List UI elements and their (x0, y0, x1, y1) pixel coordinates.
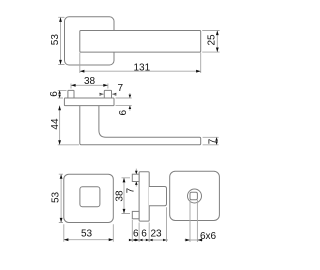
dim 53 (vertical) arrows (60, 174, 63, 222)
rosette front outline (64, 174, 114, 222)
chain dim 6/6/23 extension lines (132, 207, 166, 242)
dim 6 (left, boss height) extension ticks (58, 90, 67, 98)
right screw boss (side view) (104, 90, 111, 98)
chain dim line (131, 239, 169, 241)
dim 53 (bottom-left view, left) extension ticks (59, 174, 63, 222)
dim 25 (top view, right) extension lines (202, 31, 219, 53)
dim 38 (boss spacing) arrows (123, 178, 126, 214)
square spindle hole 6x6 (190, 192, 197, 200)
svg-text:23: 23 (151, 229, 163, 240)
dim 25 (top view) arrows (216, 31, 219, 53)
dim 53 (top view, left) dimension line (60, 17, 62, 64)
svg-text:53: 53 (51, 191, 62, 203)
dim 38 (boss spacing) dimension line (123, 178, 125, 214)
svg-text:44: 44 (50, 118, 61, 130)
svg-text:6: 6 (49, 91, 60, 97)
svg-text:7: 7 (126, 187, 137, 193)
svg-text:38: 38 (115, 190, 126, 202)
dim 7 (right boss) leader lines (100, 93, 117, 95)
svg-text:38: 38 (84, 76, 96, 87)
handle base square (front) (80, 187, 100, 207)
chain dim arrow marks (129, 239, 167, 241)
dim 38 (middle view) dimension line (71, 84, 108, 86)
dim 38 (middle view, top) extension ticks (71, 84, 108, 89)
dim 44 arrows (58, 106, 61, 145)
dim 25 (top view) dimension line (216, 31, 218, 53)
lever (top view bar) (80, 31, 201, 53)
svg-text:53: 53 (50, 34, 61, 46)
dim 53 (top view, left) extension ticks (58, 17, 64, 64)
dim 131 (top view, bottom) extension lines (80, 53, 201, 73)
rosette (top view, rounded square) (65, 17, 115, 65)
svg-text:6: 6 (141, 229, 147, 240)
dim 53 (horizontal) arrows (64, 238, 114, 241)
svg-text:7: 7 (208, 138, 219, 144)
dim 38 (middle view) arrows (71, 84, 108, 87)
rosette plate (side view) (64, 98, 114, 106)
top boss (132, 174, 139, 181)
dim 53 (horizontal) dimension line (64, 239, 114, 241)
svg-text:6: 6 (133, 229, 139, 240)
dim 6x6 dimension line (185, 239, 204, 241)
dim 131 (top view) arrows (80, 70, 201, 73)
dim 131 (top view) dimension line (80, 70, 201, 72)
svg-text:131: 131 (134, 62, 151, 73)
dim 53 (vertical) dimension line (60, 174, 62, 222)
bottom boss (132, 211, 139, 218)
dim 6 (right, plate thickness) extension lines (116, 98, 132, 106)
dim 38 (boss spacing) extension ticks (122, 178, 131, 214)
bearing circle (188, 189, 202, 203)
left screw boss (side view) (68, 90, 74, 98)
svg-text:25: 25 (206, 34, 217, 46)
dim 7 (right boss width) arrows (100, 93, 117, 96)
lever side profile (neck + bar) (80, 106, 201, 145)
dim 7 (boss height) arrows (135, 169, 137, 187)
dim 6 (left) dimension line + arrows (59, 90, 61, 98)
dim 53 (top view) arrows (59, 17, 62, 64)
handle neck stub (side view) (149, 187, 167, 206)
svg-text:6: 6 (118, 110, 129, 116)
svg-text:6x6: 6x6 (200, 231, 217, 242)
dim 44 dimension line (59, 106, 61, 145)
dim 7 (lever end) dimension line + arrows (216, 137, 218, 145)
dim 44 (middle view, left) extension tick (58, 144, 79, 146)
dim 7 (lever thickness, right end) extension lines (203, 137, 219, 145)
dim 6 (right) dimension line + outside arrows (129, 93, 131, 111)
svg-text:7: 7 (118, 83, 124, 94)
rosette plate (vertical side view) (139, 172, 149, 221)
svg-text:53: 53 (81, 228, 93, 239)
dim 6x6 leader lines (190, 200, 197, 242)
dim 53 (bottom-left view, bottom) extension lines (64, 224, 114, 242)
rosette front outline (right) (170, 171, 220, 220)
dim 6x6 outside arrows (185, 239, 202, 242)
